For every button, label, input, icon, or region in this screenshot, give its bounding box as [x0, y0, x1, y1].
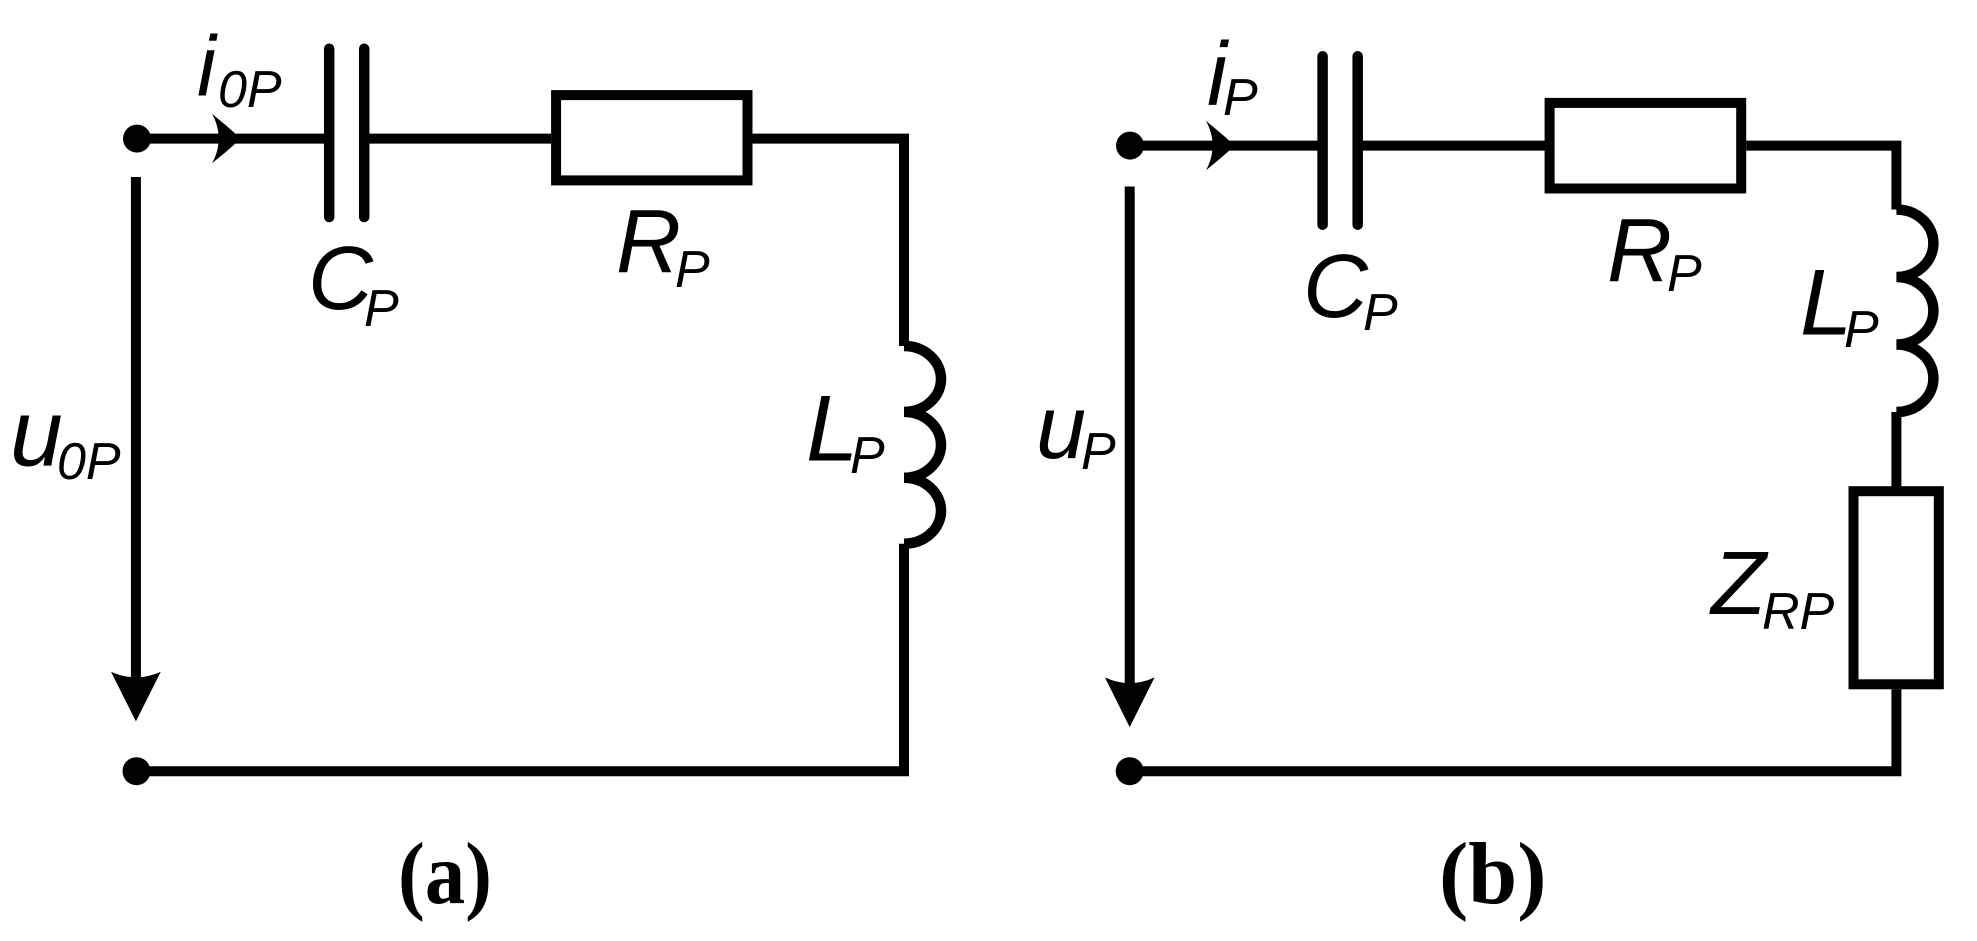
inductor LP (circuit b)	[1896, 210, 1933, 413]
svg-text:P: P	[1081, 423, 1116, 481]
voltage arrow uP head	[1105, 677, 1155, 727]
current arrow iP head	[1206, 121, 1234, 171]
current arrow i0P head	[212, 114, 240, 164]
svg-text:R: R	[1607, 201, 1672, 301]
wire B right-bottom vertical and bottom horizontal	[1130, 689, 1897, 771]
svg-text:0P: 0P	[218, 61, 282, 119]
wire A top-right corner (resistor to inductor)	[753, 139, 905, 346]
inductor LP (circuit a)	[904, 346, 941, 544]
svg-text:0P: 0P	[57, 433, 121, 491]
svg-text:u: u	[1036, 378, 1086, 478]
wire A top horizontal (left segment to capacitor)	[137, 134, 325, 144]
impedance ZRP (circuit b)	[1854, 491, 1939, 684]
capacitor CP plate 2 (circuit b)	[1352, 56, 1363, 224]
wire B top-right corner (resistor to inductor)	[1746, 146, 1896, 210]
wire A top horizontal (capacitor to resistor)	[364, 134, 551, 144]
svg-text:P: P	[1363, 284, 1398, 342]
svg-text:P: P	[675, 241, 710, 299]
resistor RP (circuit a)	[556, 95, 747, 180]
svg-text:(b): (b)	[1439, 826, 1547, 923]
svg-text:RP: RP	[1762, 583, 1835, 641]
capacitor CP plate 1	[324, 49, 335, 217]
capacitor CP plate 2	[359, 49, 370, 217]
svg-text:P: P	[1844, 301, 1879, 359]
voltage arrow u0P shaft	[131, 177, 141, 700]
resistor RP (circuit b)	[1550, 103, 1742, 189]
svg-text:P: P	[850, 427, 885, 485]
svg-text:(a): (a)	[398, 826, 492, 923]
capacitor CP plate 1 (circuit b)	[1317, 56, 1328, 224]
svg-text:i: i	[197, 19, 218, 114]
node B-top-left (terminal dot)	[1116, 132, 1144, 160]
svg-text:Z: Z	[1709, 534, 1769, 634]
node A-top-left (terminal dot)	[123, 125, 151, 153]
voltage arrow u0P head	[111, 672, 161, 722]
node B-bottom-left (terminal dot)	[1116, 757, 1144, 785]
svg-text:R: R	[616, 192, 681, 292]
svg-text:P: P	[364, 280, 399, 338]
wire B top horizontal (capacitor to resistor)	[1358, 141, 1545, 151]
svg-text:P: P	[1223, 69, 1258, 127]
wire B top horizontal (left segment to capacitor)	[1130, 141, 1318, 151]
svg-text:P: P	[1667, 245, 1702, 303]
svg-text:u: u	[10, 381, 63, 487]
voltage arrow uP shaft	[1125, 187, 1135, 707]
wire A right-bottom vertical and bottom horizontal	[137, 544, 905, 772]
node A-bottom-left (terminal dot)	[123, 757, 151, 785]
svg-text:C: C	[1303, 237, 1369, 337]
wire B vertical (inductor to ZRP)	[1891, 412, 1901, 487]
